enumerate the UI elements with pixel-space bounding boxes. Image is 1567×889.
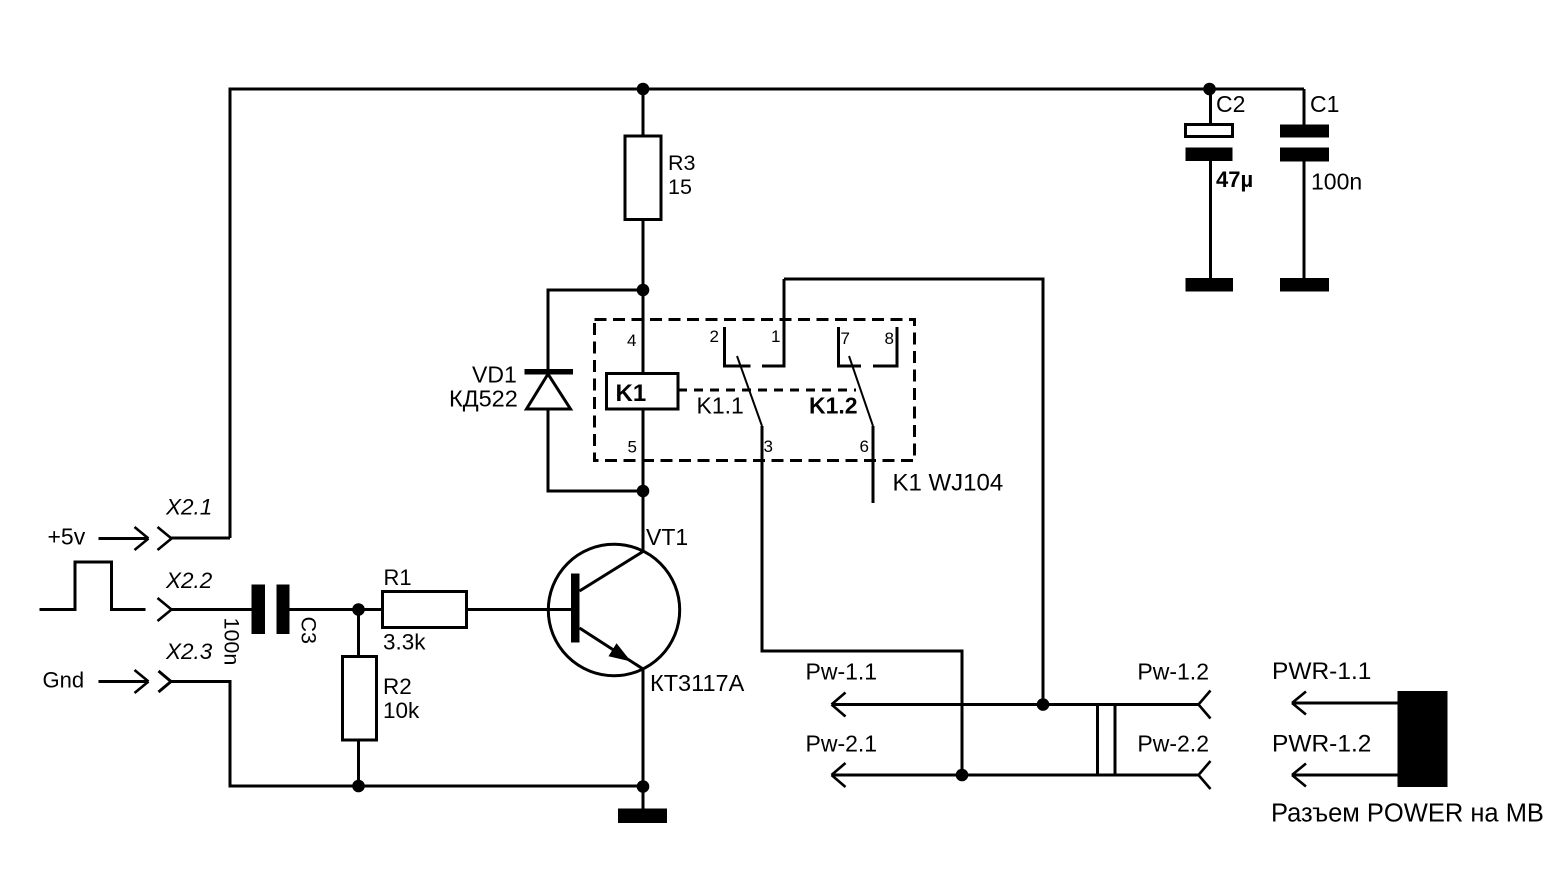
svg-text:8: 8 <box>885 329 894 348</box>
relay coil K1 box <box>607 374 679 410</box>
svg-text:X2.2: X2.2 <box>165 568 213 593</box>
node top bus R3 junction <box>637 83 650 96</box>
node R3-coil junction <box>637 284 650 297</box>
ground stem <box>642 787 645 809</box>
arrow +5v <box>99 537 149 540</box>
contact K1.1 pin2 hook <box>725 327 751 366</box>
resistor R3 <box>625 136 661 220</box>
svg-text:PWR-1.1: PWR-1.1 <box>1272 658 1371 685</box>
wire R3 bottom lead <box>642 220 645 291</box>
wire relay coil vertical pin4 <box>642 290 645 374</box>
svg-text:R2: R2 <box>383 674 412 699</box>
svg-text:VT1: VT1 <box>646 524 688 550</box>
node base divider junction <box>352 603 365 616</box>
node emitter-ground junction <box>637 780 650 793</box>
arrow Gnd <box>99 680 149 683</box>
wire X2.1 to bus <box>171 537 230 540</box>
node top bus C2 junction <box>1203 83 1216 96</box>
node coil bottom junction <box>637 485 650 498</box>
svg-text:47µ: 47µ <box>1216 167 1253 192</box>
svg-text:1: 1 <box>771 327 780 346</box>
svg-text:100n: 100n <box>220 618 244 666</box>
svg-text:VD1: VD1 <box>472 362 517 388</box>
contact K1.2 lever <box>849 356 873 426</box>
svg-text:2: 2 <box>710 327 719 346</box>
wire R2 top lead <box>357 610 360 657</box>
capacitor C1 bottom lead <box>1303 162 1306 279</box>
svg-text:C1: C1 <box>1310 91 1339 117</box>
contact K1.1 lever <box>737 356 762 426</box>
svg-text:10k: 10k <box>383 698 420 723</box>
pulse symbol <box>40 562 146 610</box>
svg-text:Разъем POWER на МВ: Разъем POWER на МВ <box>1271 800 1544 828</box>
svg-text:7: 7 <box>841 329 850 348</box>
svg-text:R1: R1 <box>384 565 412 590</box>
contact K1.1 pin1 hook <box>762 279 784 366</box>
svg-text:K1 WJ104: K1 WJ104 <box>893 470 1004 497</box>
svg-text:K1.1: K1.1 <box>697 393 744 419</box>
ground bar C1 <box>1280 278 1329 292</box>
contact K1.2 pin7 hook <box>839 327 862 366</box>
wire R2 bottom lead <box>357 740 360 786</box>
wire top +5v bus <box>230 89 1304 538</box>
svg-text:Gnd: Gnd <box>43 668 85 693</box>
svg-text:+5v: +5v <box>48 524 86 550</box>
wire relay coil pin5 <box>642 409 645 491</box>
svg-text:15: 15 <box>668 175 692 199</box>
connector Pw-1.2 chevron <box>1199 691 1211 719</box>
wire Pw-1 <box>832 703 1200 706</box>
connector X2.2 chevron <box>158 598 172 621</box>
wire R3 top lead <box>642 89 645 136</box>
transistor collector <box>580 491 644 591</box>
svg-text:3.3k: 3.3k <box>383 630 426 655</box>
svg-text:КД522: КД522 <box>449 386 518 412</box>
diode VD1 <box>525 369 574 409</box>
wire C3 to R1 <box>290 608 383 611</box>
svg-text:PWR-1.2: PWR-1.2 <box>1272 731 1371 758</box>
wire Pw-2 <box>832 774 1200 777</box>
wire VD1 bottom branch <box>548 409 643 491</box>
connector X2.3 chevron <box>159 671 172 692</box>
arrow Pw-2.1 <box>832 763 846 787</box>
relay K1 dashed outline <box>595 320 915 461</box>
svg-text:C3: C3 <box>297 617 321 645</box>
svg-text:4: 4 <box>627 331 636 350</box>
wire VD1 top branch <box>548 290 643 369</box>
transistor emitter <box>580 628 644 787</box>
svg-text:Pw-2.1: Pw-2.1 <box>806 731 878 757</box>
transistor VT1 base bar <box>571 574 580 643</box>
arrow PWR-1.2 <box>1292 774 1399 777</box>
node Pw-1 junction <box>1037 698 1050 711</box>
connector PWR body <box>1398 691 1448 787</box>
ground bar C2 <box>1186 278 1234 292</box>
svg-text:C2: C2 <box>1216 91 1245 117</box>
contact K1.2 pin8 hook <box>873 327 897 366</box>
connector X2.1 chevron <box>158 527 172 550</box>
mechanical link dashed <box>678 389 856 392</box>
svg-text:5: 5 <box>628 438 637 457</box>
resistor R2 <box>343 657 377 741</box>
capacitor C2 plates <box>1186 125 1233 162</box>
connector Pw-2.2 chevron <box>1199 761 1211 789</box>
svg-text:6: 6 <box>860 437 869 456</box>
svg-text:K1: K1 <box>616 380 647 407</box>
transistor VT1 circle <box>548 544 679 675</box>
svg-text:Pw-1.1: Pw-1.1 <box>806 659 878 685</box>
arrow Pw-1.1 <box>832 693 846 717</box>
capacitor C2 bottom lead <box>1209 161 1212 278</box>
capacitor C2 top lead <box>1209 89 1212 125</box>
svg-text:R3: R3 <box>668 151 696 175</box>
capacitor C1 plates <box>1280 125 1329 162</box>
svg-text:X2.3: X2.3 <box>165 639 213 664</box>
capacitor C3 plates <box>252 585 290 635</box>
capacitor C1 top lead <box>1303 89 1306 125</box>
connector jumper bars <box>1098 705 1116 776</box>
resistor R1 <box>383 592 467 628</box>
svg-text:КТ3117А: КТ3117А <box>650 670 745 696</box>
svg-text:3: 3 <box>764 437 773 456</box>
wire pin1 to Pw-1 <box>784 279 1043 705</box>
node R2-gnd junction <box>352 780 365 793</box>
wire pin6 stub <box>872 426 875 503</box>
svg-text:Pw-2.2: Pw-2.2 <box>1137 731 1209 757</box>
wire X2.2 to C3 <box>171 608 252 611</box>
svg-text:K1.2: K1.2 <box>809 393 858 419</box>
wire Gnd bus <box>171 682 643 787</box>
svg-text:Pw-1.2: Pw-1.2 <box>1137 659 1209 685</box>
svg-text:100n: 100n <box>1311 169 1362 195</box>
wire base lead <box>467 608 572 611</box>
arrow PWR-1.1 <box>1292 702 1399 705</box>
transistor emitter arrow <box>609 643 632 661</box>
wire pin3 to Pw-2 <box>762 426 962 775</box>
ground bar VT1 <box>618 809 667 824</box>
svg-text:X2.1: X2.1 <box>165 495 212 520</box>
node Pw-2 junction <box>956 769 969 782</box>
